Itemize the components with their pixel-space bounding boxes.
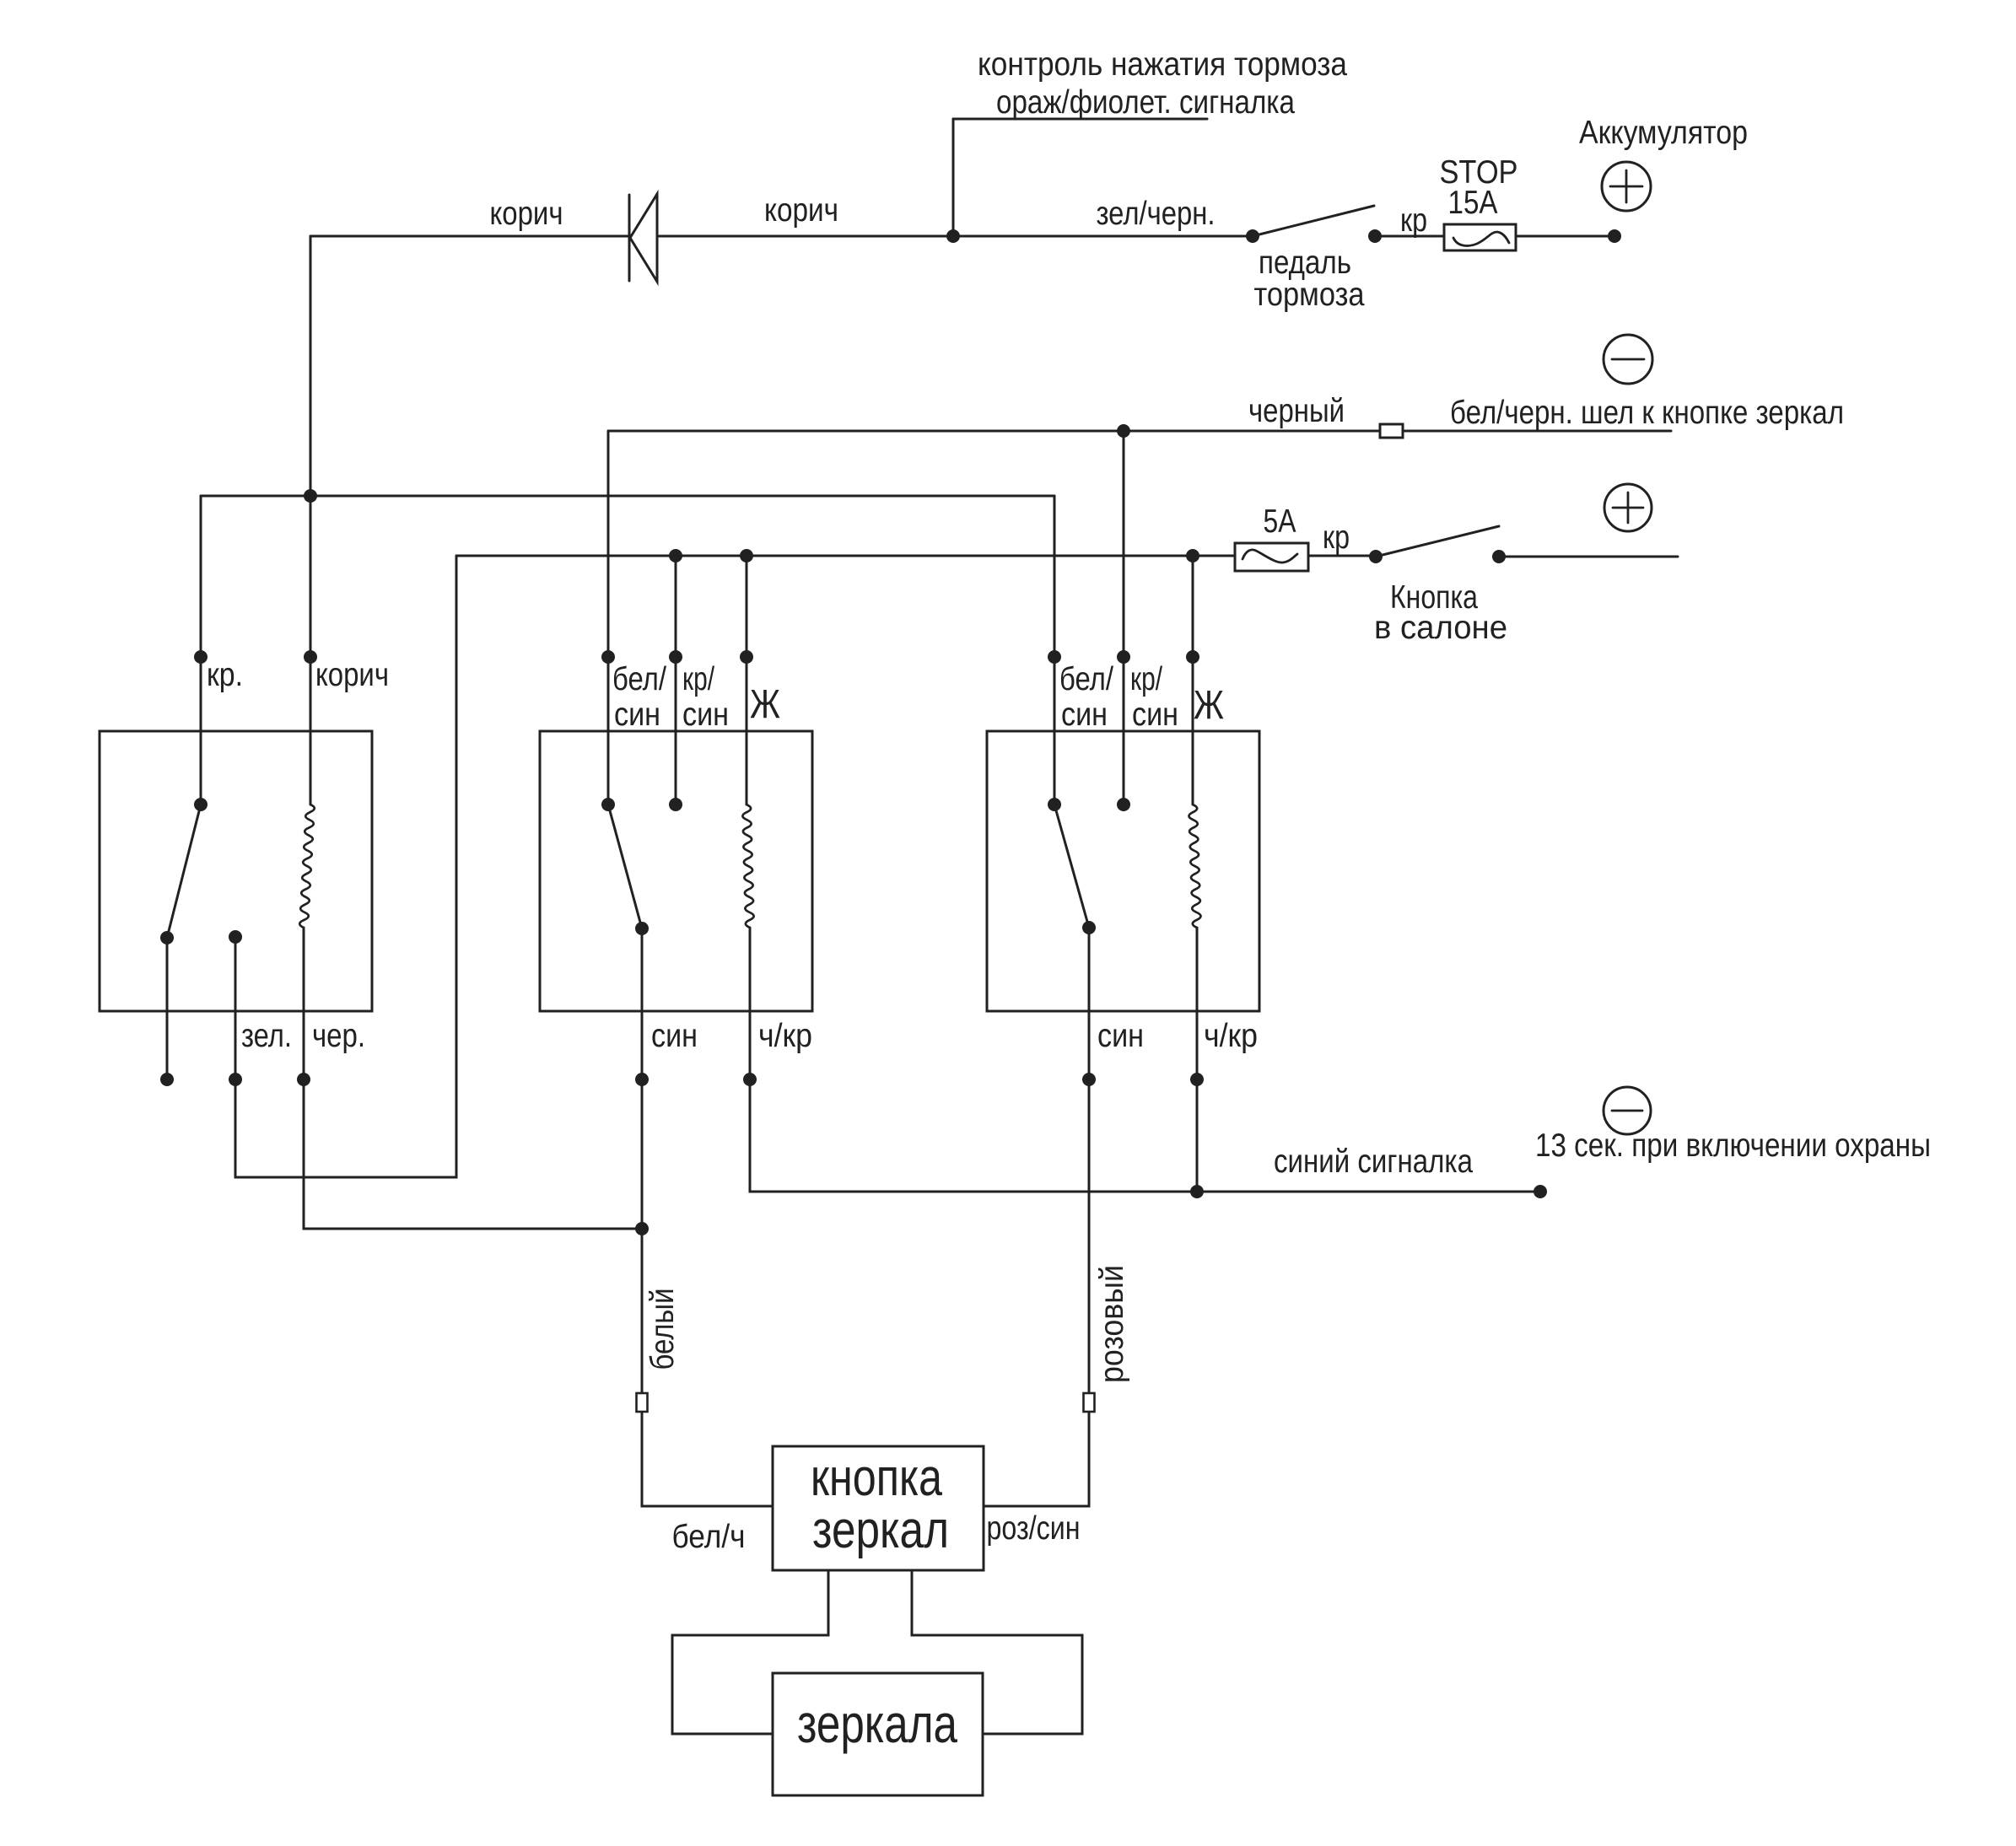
svg-text:корич: корич xyxy=(764,192,838,229)
svg-text:кр.: кр. xyxy=(207,657,243,693)
wire: mid relay kr-sin riser xyxy=(675,556,677,805)
svg-text:педаль: педаль xyxy=(1259,245,1351,281)
svg-text:корич: корич xyxy=(490,196,563,232)
svg-text:Ж: Ж xyxy=(750,682,780,727)
relay K3 switch arm xyxy=(1054,805,1089,928)
relay K1 box xyxy=(100,731,372,1011)
switch S2 arm xyxy=(1376,526,1499,557)
wire: K2 sin wire down (white wire to mirror button) xyxy=(642,928,773,1506)
battery plus symbol xyxy=(1602,162,1651,211)
wire: fuse STOP to battery plus xyxy=(1517,235,1614,238)
wire: K1 zel wire down and over to +12 riser xyxy=(235,556,456,1177)
connector: inline connector on white wire xyxy=(637,1393,648,1412)
diode D1 triangle xyxy=(630,194,657,282)
svg-text:Аккумулятор: Аккумулятор xyxy=(1579,115,1748,151)
svg-text:кр: кр xyxy=(1400,202,1427,239)
svg-text:син: син xyxy=(1061,697,1108,733)
wire: right relay bel-sin riser from y588 corner xyxy=(1054,496,1056,805)
relay K2 box xyxy=(540,731,812,1011)
node: mid bel-sin dot xyxy=(601,650,615,664)
junction: blue alarm bus / K3 ch-kr xyxy=(1190,1185,1204,1198)
relay K3 box xyxy=(987,731,1259,1011)
node: K2 ch/kr dot xyxy=(743,1073,757,1086)
fuse F2 wave xyxy=(1242,550,1297,562)
relay K2 switch arm contact xyxy=(635,922,649,935)
relay K1 switch arm xyxy=(167,805,201,938)
relay K1 coil xyxy=(299,805,315,928)
node: brake-control tap label line xyxy=(953,118,1207,121)
fuse F2 5A body xyxy=(1235,543,1308,571)
battery minus symbol xyxy=(1604,335,1652,384)
wire: kr. drop to left relay switch xyxy=(200,496,202,805)
diode D1 cathode bar xyxy=(628,195,631,281)
svg-text:бел/черн. шел к кнопке зеркал: бел/черн. шел к кнопке зеркал xyxy=(1450,395,1844,431)
mirrors box xyxy=(773,1673,983,1795)
svg-text:син: син xyxy=(682,697,729,733)
node: K1 zel dot xyxy=(229,1073,242,1086)
junction: cher joins white wire xyxy=(635,1222,649,1235)
switch S1 right contact xyxy=(1368,229,1382,243)
svg-text:бел/ч: бел/ч xyxy=(672,1519,746,1555)
svg-text:ч/кр: ч/кр xyxy=(758,1018,812,1054)
node: K3 ch/kr dot xyxy=(1190,1073,1204,1086)
junction: brown bus / tap xyxy=(946,229,960,243)
svg-text:син: син xyxy=(614,697,660,733)
svg-text:тормоза: тормоза xyxy=(1254,277,1365,313)
wire: K1 arm contact drop xyxy=(166,938,169,1079)
svg-text:кр/: кр/ xyxy=(1130,661,1162,697)
node: K3 sin dot xyxy=(1082,1073,1096,1086)
node: blue alarm bus end dot xyxy=(1534,1185,1547,1198)
switch S2 (cabin button) left contact xyxy=(1369,550,1383,563)
fuse F1 wave xyxy=(1453,232,1509,245)
junction: +12 bus / right relay Zh xyxy=(1186,549,1199,562)
node: right kr-sin dot xyxy=(1117,650,1130,664)
relay K1 NO contact xyxy=(229,930,242,944)
svg-text:роз/син: роз/син xyxy=(987,1510,1081,1547)
relay K2 switch common contact xyxy=(601,798,615,811)
relay K3 coil xyxy=(1189,805,1200,928)
node: K1 arm wire end dot xyxy=(160,1073,174,1086)
wire: K2 ch/kr wire down and right (blue alarm bus) xyxy=(750,928,1540,1192)
svg-text:зел/черн.: зел/черн. xyxy=(1097,196,1216,232)
relay K1 switch arm contact xyxy=(160,931,174,945)
wire: mirror button to mirrors left link xyxy=(672,1570,828,1734)
wire: black ground bus horizontal xyxy=(608,430,1671,433)
wire: +12V bus y=659 from left riser to 5A fuse xyxy=(456,555,1235,557)
switch S1 (brake pedal) left contact xyxy=(1246,229,1259,243)
svg-text:синий сигналка: синий сигналка xyxy=(1274,1144,1473,1180)
connector: inline connector on black bus xyxy=(1380,424,1403,438)
svg-text:чер.: чер. xyxy=(312,1018,365,1054)
wire: tap vertical from label to brown bus xyxy=(952,119,955,236)
wire: mirror button to mirrors right link xyxy=(912,1570,1082,1734)
svg-text:кр: кр xyxy=(1323,519,1350,556)
svg-text:ораж/фиолет. сигналка: ораж/фиолет. сигналка xyxy=(996,84,1295,121)
node: battery plus terminal dot xyxy=(1608,229,1621,243)
wire: brown bus diode to brake pedal switch xyxy=(657,235,1253,238)
svg-text:син: син xyxy=(1097,1018,1144,1054)
svg-text:кнопка: кнопка xyxy=(811,1449,942,1507)
svg-text:Ж: Ж xyxy=(1194,683,1224,728)
svg-text:зеркал: зеркал xyxy=(812,1501,949,1559)
node: mid kr-sin dot xyxy=(669,650,682,664)
wire: 5A fuse to cabin button xyxy=(1308,555,1376,557)
svg-text:черный: черный xyxy=(1248,393,1345,429)
svg-text:син: син xyxy=(1132,697,1178,733)
svg-text:розовый: розовый xyxy=(1094,1265,1130,1383)
svg-text:зеркала: зеркала xyxy=(797,1693,957,1754)
svg-text:кр/: кр/ xyxy=(682,661,714,697)
wire: K3 ch/kr drop to blue alarm bus xyxy=(1196,928,1199,1192)
svg-text:син: син xyxy=(651,1018,698,1054)
wire: green wire bus y=588 xyxy=(201,495,1054,498)
relay K2 NO contact xyxy=(669,798,682,811)
junction: +12 bus / mid relay kr-sin xyxy=(669,549,682,562)
svg-text:бел/: бел/ xyxy=(612,661,666,697)
alarm minus symbol xyxy=(1604,1087,1651,1134)
connector: inline connector on pink wire xyxy=(1084,1393,1095,1412)
wire: right relay kr-sin riser from black bus xyxy=(1123,431,1125,805)
fuse F1 STOP 15A body xyxy=(1444,224,1516,250)
cabin button plus symbol xyxy=(1604,484,1652,531)
svg-text:ч/кр: ч/кр xyxy=(1204,1018,1258,1054)
relay K3 switch arm contact xyxy=(1082,921,1096,934)
relay K2 coil xyxy=(742,805,753,928)
node: right bel-sin dot xyxy=(1048,650,1061,664)
svg-text:15А: 15А xyxy=(1448,185,1498,221)
junction: +12 bus / mid relay Zh xyxy=(740,549,753,562)
relay K2 switch arm xyxy=(608,805,642,928)
node: kr. wire dot xyxy=(194,650,208,664)
wire: brown vertical from bus corner to left relay coil xyxy=(310,236,312,805)
svg-text:13 сек. при включении охраны: 13 сек. при включении охраны xyxy=(1535,1128,1931,1164)
mirror button box xyxy=(773,1446,984,1570)
junction: y588 bus / brown vertical xyxy=(304,489,317,503)
wire: cabin button to plus xyxy=(1499,556,1678,558)
node: K2 sin dot xyxy=(635,1073,649,1086)
wire: black ground bus vertical to middle relay xyxy=(607,431,610,805)
relay K3 switch common contact xyxy=(1048,798,1061,811)
node: mid Zh dot xyxy=(740,650,753,664)
switch S2 right contact xyxy=(1492,550,1506,563)
relay K3 NO contact xyxy=(1117,798,1130,811)
svg-text:в салоне: в салоне xyxy=(1374,610,1507,646)
svg-text:контроль нажатия тормоза: контроль нажатия тормоза xyxy=(978,46,1347,83)
svg-text:бел/: бел/ xyxy=(1059,661,1113,697)
node: K1 cher dot xyxy=(297,1073,310,1086)
node: right Zh dot xyxy=(1186,650,1199,664)
wire: mid relay Zh riser xyxy=(746,556,748,805)
switch S1 arm xyxy=(1253,206,1374,236)
wire: K1 cher wire down and over to white wire xyxy=(304,928,642,1229)
wire: switch S1 to fuse STOP xyxy=(1375,235,1444,238)
wire: brown bus horizontal y=280 left segment to diode xyxy=(310,235,629,238)
junction: black bus / right relay coil wire xyxy=(1117,424,1130,438)
wire: right relay Zh riser xyxy=(1192,556,1194,805)
svg-text:белый: белый xyxy=(644,1289,681,1370)
svg-text:зел.: зел. xyxy=(241,1018,292,1054)
wire: K3 sin wire down (pink wire to mirror button) xyxy=(984,928,1089,1506)
node: korich wire dot xyxy=(304,650,317,664)
svg-text:5А: 5А xyxy=(1264,503,1296,540)
svg-text:корич: корич xyxy=(315,657,389,693)
relay K1 switch common contact xyxy=(194,798,208,811)
